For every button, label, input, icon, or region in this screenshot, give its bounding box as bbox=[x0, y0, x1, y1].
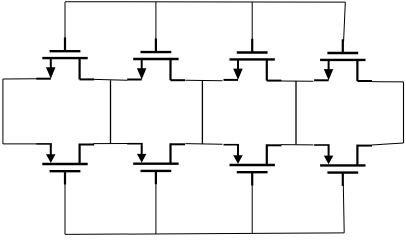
gate wire from Q7 to bottom bus bbox=[251, 184, 253, 233]
gate wire from Q6 to bottom bus bbox=[155, 183, 157, 234]
Q5 source stub bbox=[36, 143, 52, 145]
transistor Q1 (top row) bbox=[36, 38, 94, 80]
wire: left edge to Q1 source bbox=[3, 78, 37, 80]
Q1 source lead with arrow bbox=[50, 58, 52, 68]
wire: vertical between Q2/Q3 columns bbox=[201, 81, 203, 144]
gate wire from top bus to Q3 bbox=[251, 2, 253, 41]
Q8 source lead with arrow bbox=[328, 145, 330, 156]
wire: Q3 drain to Q4 source bbox=[281, 80, 314, 82]
Q8 channel bar bbox=[320, 164, 365, 166]
Q1 drain stub bbox=[80, 78, 95, 80]
wire: Q1 drain to Q2 source bbox=[94, 78, 127, 81]
gate wire from Q5 to bottom bus bbox=[64, 183, 66, 234]
Q1 source stub bbox=[36, 78, 51, 80]
Q4 source stub bbox=[314, 79, 329, 81]
bottom gate bus bbox=[65, 233, 344, 235]
Q8 gate bar bbox=[327, 171, 358, 173]
Q4 gate bar bbox=[327, 52, 358, 54]
Q1 channel bar bbox=[42, 57, 87, 59]
Q4 gate lead bbox=[342, 39, 344, 52]
gate wire from top bus to Q2 bbox=[155, 2, 157, 41]
Q6 arrowhead bbox=[137, 154, 147, 163]
Q2 source lead with arrow bbox=[141, 59, 143, 69]
Q6 channel bar bbox=[133, 162, 178, 164]
Q6 gate lead bbox=[155, 172, 157, 184]
Q4 drain stub bbox=[357, 80, 372, 82]
Q6 drain lead bbox=[169, 143, 171, 163]
wire: vertical between Q3/Q4 columns bbox=[295, 81, 297, 144]
wire: left edge vertical bbox=[2, 79, 4, 144]
transistor Q2 (top row) bbox=[127, 38, 185, 80]
Q8 drain stub bbox=[357, 145, 372, 147]
wire: vertical between Q1/Q2 columns bbox=[110, 80, 112, 143]
Q1 arrowhead bbox=[46, 67, 56, 78]
Q2 arrowhead bbox=[137, 68, 147, 79]
Q3 drain stub bbox=[267, 80, 282, 82]
Q8 drain lead bbox=[356, 145, 358, 166]
Q3 gate bar bbox=[237, 51, 268, 53]
wire: Q7 drain to Q8 source bbox=[281, 144, 314, 146]
gate wire from Q8 to bottom bus (slanted) bbox=[342, 184, 345, 233]
Q2 channel bar bbox=[133, 58, 178, 60]
Q7 source stub bbox=[224, 144, 240, 146]
Q7 source lead with arrow bbox=[237, 145, 239, 156]
Q7 gate bar bbox=[237, 171, 268, 173]
Q2 drain lead bbox=[169, 59, 171, 80]
Q7 drain stub bbox=[267, 144, 282, 146]
Q4 arrowhead bbox=[324, 69, 334, 80]
Q2 source stub bbox=[127, 79, 142, 81]
Q6 source stub bbox=[127, 143, 143, 145]
transistor Q5 (bottom row) bbox=[36, 144, 94, 185]
Q3 channel bar bbox=[230, 58, 275, 60]
Q2 gate lead bbox=[155, 38, 157, 51]
Q7 drain lead bbox=[266, 144, 268, 165]
Q1 gate lead bbox=[64, 38, 66, 51]
Q5 gate bar bbox=[50, 170, 81, 172]
Q2 gate bar bbox=[141, 51, 172, 53]
Q4 source lead with arrow bbox=[328, 60, 330, 70]
gate wire from top bus to Q4 (slanted) bbox=[344, 2, 346, 41]
Q1 gate bar bbox=[50, 50, 81, 52]
Q5 source lead with arrow bbox=[50, 144, 52, 155]
Q7 arrowhead bbox=[233, 155, 243, 164]
Q1 drain lead bbox=[78, 58, 80, 79]
Q8 source stub bbox=[314, 144, 330, 146]
Q6 gate bar bbox=[141, 170, 172, 172]
Q3 source stub bbox=[224, 79, 239, 81]
gate wire from top bus to Q1 bbox=[64, 2, 66, 40]
transistor Q8 (bottom row) bbox=[314, 145, 372, 186]
Q4 channel bar bbox=[320, 59, 365, 61]
wire: Q5 drain to Q6 source bbox=[93, 143, 127, 145]
Q3 gate lead bbox=[251, 39, 253, 52]
Q3 source lead with arrow bbox=[237, 59, 239, 69]
transistor Q6 (bottom row) bbox=[127, 143, 185, 184]
wire: Q8 drain to right edge bbox=[372, 143, 404, 145]
Q3 arrowhead bbox=[233, 69, 243, 80]
wire: Q2 drain to Q3 source bbox=[186, 79, 223, 82]
transistor Q7 (bottom row) bbox=[224, 144, 282, 185]
Q4 drain lead bbox=[356, 60, 358, 81]
wire: left edge to Q5 source bbox=[3, 143, 37, 145]
Q5 drain lead bbox=[78, 144, 80, 165]
top gate bus bbox=[65, 1, 345, 3]
Q3 drain lead bbox=[266, 59, 268, 80]
Q5 gate lead bbox=[64, 172, 66, 184]
Q5 arrowhead bbox=[46, 154, 56, 163]
transistor Q3 (top row) bbox=[224, 39, 282, 81]
wire: right edge vertical bbox=[403, 82, 405, 143]
Q8 arrowhead bbox=[324, 156, 334, 165]
Q7 gate lead bbox=[251, 173, 253, 185]
Q6 drain stub bbox=[171, 143, 186, 145]
Q8 gate lead bbox=[342, 174, 344, 186]
wire: Q6 drain to Q7 source bbox=[186, 143, 223, 146]
Q5 channel bar bbox=[42, 163, 87, 165]
Q5 drain stub bbox=[80, 144, 95, 146]
transistor Q4 (top row) bbox=[314, 39, 372, 81]
Q6 source lead with arrow bbox=[141, 144, 143, 155]
wire: Q4 drain to right edge bbox=[372, 81, 404, 83]
Q7 channel bar bbox=[230, 164, 275, 166]
Q2 drain stub bbox=[171, 79, 186, 81]
